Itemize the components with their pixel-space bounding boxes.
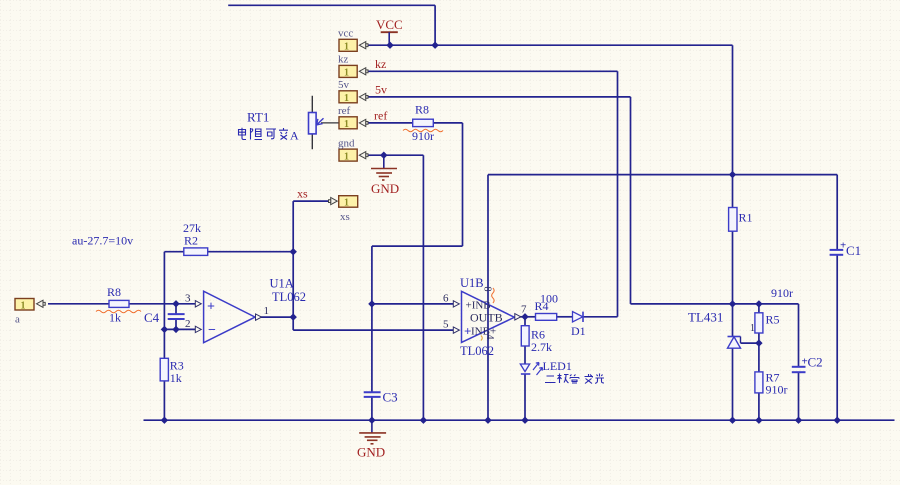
- svg-text:LED1: LED1: [543, 359, 572, 373]
- label CJK erjiguan faguang: [545, 374, 604, 384]
- svg-text:ref: ref: [374, 109, 387, 123]
- svg-text:R8: R8: [107, 285, 121, 299]
- svg-text:R4: R4: [535, 299, 549, 313]
- ground GND symbol upper: [371, 155, 397, 180]
- label CJK dianzu kebianA: [239, 128, 289, 140]
- ground GND symbol lower: [359, 420, 386, 444]
- junction bus C3: [368, 417, 375, 424]
- resistor R6 2.7k: [521, 326, 552, 354]
- svg-text:5: 5: [443, 319, 449, 331]
- svg-text:U1B: U1B: [460, 276, 484, 290]
- junction R5 top: [755, 300, 762, 307]
- wire R5 top lead: [758, 304, 760, 313]
- wire xs horizontal: [293, 200, 330, 202]
- wire C1 top lead: [836, 175, 838, 250]
- wire R7 top lead: [758, 343, 760, 372]
- svg-text:5v: 5v: [375, 83, 387, 97]
- junction bus R7: [755, 417, 762, 424]
- wire R1 top lead: [732, 175, 734, 208]
- svg-text:xs: xs: [297, 187, 308, 201]
- svg-text:xs: xs: [340, 211, 350, 223]
- svg-text:C4: C4: [144, 310, 160, 325]
- svg-text:OUTB: OUTB: [470, 311, 503, 325]
- wire R6 to LED: [524, 346, 526, 364]
- wire gnd port horizontal: [366, 154, 423, 156]
- svg-text:4: 4: [484, 335, 495, 340]
- wire D1 to kz column: [583, 316, 618, 318]
- wire vcc rail vertical right: [732, 45, 734, 174]
- op-amp U1A: [185, 277, 306, 343]
- potentiometer RT1: [247, 96, 339, 149]
- svg-text:1: 1: [344, 42, 349, 53]
- wire C1 bottom lead: [836, 255, 838, 420]
- wire C3 bottom lead: [371, 397, 373, 420]
- svg-text:7: 7: [521, 304, 527, 316]
- svg-text:gnd: gnd: [338, 137, 355, 149]
- svg-text:6: 6: [443, 293, 449, 305]
- port 5v: [338, 79, 368, 104]
- wire C4 top stub: [175, 304, 177, 314]
- svg-text:GND: GND: [371, 181, 399, 196]
- junction R2 right xs: [290, 248, 297, 255]
- wire vcc rail horizontal: [366, 44, 733, 46]
- wire input from port a: [48, 303, 109, 305]
- regulator TL431: [688, 310, 741, 349]
- 阻: [251, 128, 263, 140]
- wire U1A output: [260, 316, 293, 318]
- port ref: [338, 105, 368, 130]
- wire U1B pin6: [372, 303, 455, 305]
- svg-text:R5: R5: [766, 313, 780, 327]
- svg-text:RT1: RT1: [247, 110, 269, 125]
- resistor R8 910r: [403, 103, 443, 144]
- wire gnd vertical to bus: [422, 155, 424, 420]
- wire R6 top lead: [524, 317, 526, 326]
- svg-text:910r: 910r: [771, 286, 793, 300]
- 极: [558, 374, 569, 384]
- 管: [570, 375, 579, 384]
- wire ref horizontal jog: [372, 245, 463, 247]
- junction bus LED: [521, 417, 528, 424]
- svg-text:+: +: [207, 300, 215, 315]
- svg-text:910r: 910r: [766, 383, 788, 397]
- wire kz horizontal: [366, 70, 618, 72]
- 变: [279, 128, 288, 140]
- svg-text:1: 1: [344, 151, 349, 162]
- svg-text:3: 3: [185, 293, 191, 305]
- junction vcc corner node: [729, 171, 736, 178]
- op-amp U1B: [443, 276, 527, 358]
- svg-text:1: 1: [21, 300, 26, 311]
- resistor R5: [750, 286, 793, 334]
- capacitor C3: [364, 390, 398, 405]
- svg-text:1: 1: [344, 68, 349, 79]
- wire U1B power vertical: [487, 175, 489, 421]
- 发: [585, 374, 594, 384]
- svg-text:1: 1: [344, 119, 349, 130]
- junction bus C1: [834, 417, 841, 424]
- svg-text:VCC: VCC: [376, 17, 403, 32]
- svg-text:ref: ref: [338, 105, 351, 117]
- wire TL431 ref to R5/R7 node: [741, 342, 759, 344]
- wire R8 to corner: [433, 122, 462, 124]
- wire R7 bottom lead: [758, 393, 760, 420]
- junction bus U1B power: [484, 417, 491, 424]
- svg-text:1: 1: [344, 93, 349, 104]
- wire R5 bottom lead: [758, 333, 760, 343]
- svg-text:vcc: vcc: [338, 28, 353, 40]
- junction U1A output: [290, 313, 297, 320]
- junction gnd port: [380, 152, 387, 159]
- svg-text:D1: D1: [571, 324, 586, 338]
- resistor R1: [729, 208, 753, 232]
- junction TL431 ref node: [755, 339, 762, 346]
- wire ref vertical: [462, 123, 464, 246]
- capacitor C2: [792, 355, 823, 373]
- svg-text:1: 1: [264, 305, 270, 317]
- junction top line: [431, 42, 438, 49]
- svg-text:R8: R8: [415, 103, 429, 117]
- junction bus TL431: [729, 417, 736, 424]
- svg-text:−: −: [208, 323, 216, 338]
- junction C4 bottom: [172, 326, 179, 333]
- junction bus R3: [161, 417, 168, 424]
- port vcc: [338, 28, 368, 53]
- wire C2 top lead: [798, 304, 800, 366]
- 二: [545, 376, 556, 383]
- wire ground bus: [144, 419, 895, 421]
- 可: [266, 129, 276, 139]
- wire 5v horizontal: [366, 96, 631, 98]
- junction U1B output: [521, 313, 528, 320]
- 光: [595, 374, 604, 384]
- wire R3 bottom lead: [163, 381, 165, 420]
- resistor R8 1k: [96, 285, 141, 325]
- resistor R4 100: [535, 292, 559, 321]
- wire U1A pin5 horizontal: [293, 329, 455, 331]
- wire xs vertical / feedback column: [292, 201, 294, 330]
- port a: [15, 299, 45, 326]
- junction VCC stem: [386, 42, 393, 49]
- port kz: [338, 54, 368, 79]
- wire LED to bus: [524, 374, 526, 420]
- svg-text:C2: C2: [808, 355, 823, 370]
- wire R2 left lead: [164, 251, 183, 253]
- 电: [239, 128, 247, 140]
- wire ref vertical to C3: [371, 246, 373, 392]
- svg-text:5v: 5v: [338, 79, 350, 91]
- port gnd: [338, 137, 368, 162]
- svg-text:GND: GND: [357, 445, 385, 460]
- wire pin2 horizontal: [164, 328, 195, 330]
- svg-text:2: 2: [185, 318, 191, 330]
- wire R2 left vertical: [163, 252, 165, 359]
- capacitor C4: [144, 310, 185, 325]
- wire 5v vertical: [630, 97, 632, 304]
- svg-text:au-27.7=10v: au-27.7=10v: [72, 234, 133, 248]
- svg-text:U1A: U1A: [270, 277, 294, 291]
- power VCC symbol: [381, 32, 398, 45]
- svg-text:C3: C3: [383, 390, 398, 405]
- wire top segment vertical to vcc rail: [434, 5, 436, 45]
- svg-text:kz: kz: [338, 54, 349, 66]
- svg-text:1k: 1k: [170, 371, 182, 385]
- svg-text:C1: C1: [846, 243, 861, 258]
- wire R1 bottom lead to TL431: [732, 231, 734, 336]
- svg-text:TL062: TL062: [460, 344, 494, 358]
- svg-text:+: +: [464, 324, 471, 339]
- svg-text:1: 1: [344, 198, 349, 209]
- junction bus C2: [795, 417, 802, 424]
- svg-text:2.7k: 2.7k: [531, 340, 552, 354]
- svg-text:TL431: TL431: [688, 310, 723, 325]
- capacitor C1: [830, 240, 862, 259]
- resistor R3 1k: [160, 358, 184, 385]
- LED LED1: [520, 359, 572, 375]
- wire C4 bottom stub: [175, 320, 177, 330]
- port xs: [329, 196, 358, 223]
- svg-text:TL062: TL062: [272, 290, 306, 304]
- junction pin2 left: [161, 326, 168, 333]
- svg-text:a: a: [15, 314, 20, 326]
- wire kz vertical to D1: [617, 71, 619, 316]
- junction C4 top: [172, 300, 179, 307]
- junction ref pin6: [368, 300, 375, 307]
- wire TL431 anode to bus: [732, 348, 734, 420]
- svg-text:A: A: [290, 129, 299, 143]
- wire R2 right lead: [208, 251, 294, 253]
- wire R4 to D1: [557, 316, 573, 318]
- resistor R2 27k: [183, 221, 208, 255]
- wire U1B output: [520, 316, 536, 318]
- wire R8 1k to pin3: [129, 303, 195, 305]
- wire C2 bottom lead: [798, 373, 800, 421]
- svg-text:1: 1: [750, 323, 755, 334]
- resistor R7 910r: [755, 371, 788, 397]
- wire vcc branch horizontal at y175: [488, 174, 837, 176]
- svg-text:R2: R2: [184, 234, 198, 248]
- diode D1: [571, 312, 586, 338]
- wire top segment horizontal: [228, 4, 435, 6]
- svg-text:R1: R1: [739, 211, 753, 225]
- junction R1 bottom 5v node: [729, 300, 736, 307]
- svg-text:kz: kz: [375, 57, 386, 71]
- junction bus gnd column: [420, 417, 427, 424]
- wire ref port to R8: [366, 122, 413, 124]
- wire 5v to TL431 node: [631, 303, 799, 305]
